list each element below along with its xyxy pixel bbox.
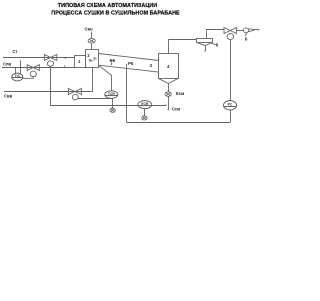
svg-text:1: 1 xyxy=(78,59,81,64)
svg-text:Есм: Есм xyxy=(176,91,184,96)
svg-text:ЕСR: ЕСR xyxy=(141,102,149,106)
svg-text:Ст: Ст xyxy=(13,49,18,54)
svg-text:2: 2 xyxy=(87,53,90,58)
svg-text:ТСR: ТСR xyxy=(108,92,116,96)
svg-text:Свн: Свн xyxy=(85,27,94,32)
svg-text:3: 3 xyxy=(150,63,153,68)
svg-text:Р6: Р6 xyxy=(128,61,134,66)
svg-text:Спв: Спв xyxy=(3,62,12,67)
svg-text:6: 6 xyxy=(245,36,248,41)
svg-text:ТИПОВАЯ СХЕМА АВТОМАТИЗАЦИИ: ТИПОВАЯ СХЕМА АВТОМАТИЗАЦИИ xyxy=(58,3,157,9)
svg-text:Свв: Свв xyxy=(4,94,13,99)
svg-text:5: 5 xyxy=(216,43,219,48)
svg-text:ТIС: ТIС xyxy=(15,74,21,78)
svg-text:РС: РС xyxy=(228,103,233,107)
svg-text:4: 4 xyxy=(167,64,170,69)
svg-text:Ѳ6: Ѳ6 xyxy=(110,58,116,63)
svg-text:ПРОЦЕССА СУШКИ В СУШИЛЬНОМ БАР: ПРОЦЕССА СУШКИ В СУШИЛЬНОМ БАРАБАНЕ xyxy=(51,11,180,17)
svg-text:Ссм: Ссм xyxy=(172,107,180,112)
svg-text:β₂: β₂ xyxy=(94,57,98,61)
